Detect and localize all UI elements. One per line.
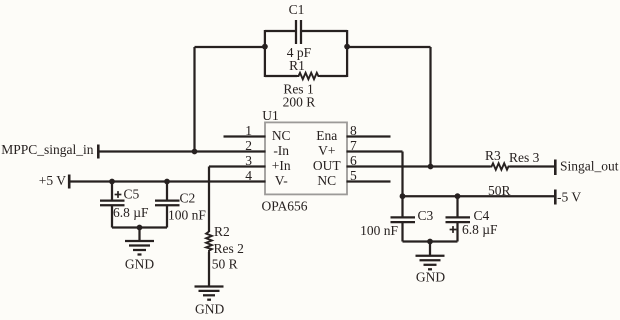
- svg-text:4: 4: [245, 168, 252, 183]
- pin 8 Ena stub: [347, 135, 391, 137]
- svg-text:2: 2: [245, 138, 252, 153]
- svg-text:8: 8: [350, 123, 357, 138]
- resistor R1: [297, 73, 320, 79]
- svg-text:MPPC_singal_in: MPPC_singal_in: [1, 142, 94, 157]
- node C2 tap: [164, 179, 170, 185]
- wire: [195, 46, 265, 48]
- svg-text:50R: 50R: [488, 183, 511, 198]
- wire: [403, 195, 556, 197]
- node inverting-input: [192, 149, 198, 155]
- svg-text:7: 7: [350, 138, 357, 153]
- svg-text:C4: C4: [474, 208, 490, 223]
- wire: [510, 165, 555, 167]
- svg-text:NC: NC: [317, 173, 336, 188]
- svg-text:200 R: 200 R: [283, 95, 316, 110]
- wire: [208, 167, 210, 233]
- wire: [429, 47, 431, 167]
- svg-text:U1: U1: [262, 108, 279, 123]
- svg-text:Res 3: Res 3: [509, 150, 540, 165]
- wire: [209, 165, 266, 167]
- wire: [347, 150, 403, 152]
- svg-text:C5: C5: [124, 187, 140, 202]
- svg-text:Singal_out: Singal_out: [560, 159, 619, 174]
- wire: [347, 165, 491, 167]
- svg-text:1: 1: [245, 123, 252, 138]
- svg-text:+In: +In: [272, 158, 291, 173]
- svg-text:R3: R3: [485, 148, 501, 163]
- wire: [98, 150, 265, 152]
- wire: [193, 47, 195, 152]
- wire: [302, 30, 347, 32]
- svg-text:V-: V-: [275, 173, 289, 188]
- pin 1 NC stub: [224, 135, 266, 137]
- wire: [403, 240, 458, 242]
- svg-text:50 R: 50 R: [212, 257, 238, 272]
- capacitor C5: [100, 182, 125, 228]
- port -5V tick: [554, 190, 557, 205]
- node C5 tap: [109, 179, 115, 185]
- svg-text:R2: R2: [214, 224, 230, 239]
- capacitor C3: [391, 196, 416, 241]
- svg-text:100 nF: 100 nF: [360, 223, 398, 238]
- wire: [69, 180, 265, 182]
- pin 5 NC stub: [347, 180, 391, 182]
- wire: [112, 226, 167, 228]
- node GND2 tap: [427, 239, 433, 245]
- capacitor C4: [446, 196, 471, 241]
- port +5V tick: [68, 175, 71, 189]
- node C3 tap: [400, 193, 406, 199]
- resistor R2: [206, 232, 212, 253]
- op-amp U1 body: [265, 122, 347, 194]
- svg-text:-In: -In: [273, 143, 289, 158]
- wire: [265, 30, 295, 32]
- svg-text:6: 6: [350, 153, 357, 168]
- node feedback-left: [262, 44, 268, 50]
- node GND1 tap: [137, 225, 143, 231]
- wire: [347, 46, 430, 48]
- svg-text:C1: C1: [289, 2, 305, 17]
- svg-text:GND: GND: [416, 270, 445, 285]
- node feedback-right: [344, 44, 350, 50]
- wire: [265, 75, 297, 77]
- svg-text:C2: C2: [180, 191, 196, 206]
- port MPPC_singal_in tick: [97, 145, 100, 159]
- ground GND3: [195, 287, 224, 300]
- wire: [346, 30, 348, 77]
- node C4 tap: [455, 193, 461, 199]
- wire: [208, 252, 210, 287]
- wire: [264, 30, 266, 77]
- wire: [320, 75, 347, 77]
- svg-text:NC: NC: [272, 128, 291, 143]
- svg-text:OUT: OUT: [313, 158, 341, 173]
- svg-text:Res 2: Res 2: [214, 241, 244, 256]
- svg-text:V+: V+: [318, 143, 335, 158]
- svg-text:OPA656: OPA656: [262, 199, 308, 214]
- svg-text:+5 V: +5 V: [39, 173, 66, 188]
- node output: [428, 164, 434, 170]
- ground GND2: [416, 242, 445, 270]
- wire: [401, 152, 403, 197]
- svg-text:-5 V: -5 V: [557, 190, 581, 205]
- svg-text:3: 3: [245, 153, 252, 168]
- svg-text:R1: R1: [289, 58, 305, 73]
- svg-text:100 nF: 100 nF: [168, 208, 206, 223]
- ground GND1: [125, 228, 154, 255]
- svg-text:GND: GND: [125, 257, 154, 272]
- capacitor C1: [296, 20, 301, 44]
- capacitor C2: [155, 182, 180, 228]
- resistor R3: [490, 163, 510, 169]
- svg-text:5: 5: [350, 168, 357, 183]
- svg-text:Ena: Ena: [316, 128, 337, 143]
- svg-text:6.8 µF: 6.8 µF: [113, 205, 149, 220]
- svg-text:6.8 µF: 6.8 µF: [462, 222, 498, 237]
- port Singal_out tick: [554, 160, 557, 176]
- svg-text:GND: GND: [195, 302, 224, 317]
- svg-text:C3: C3: [418, 208, 434, 223]
